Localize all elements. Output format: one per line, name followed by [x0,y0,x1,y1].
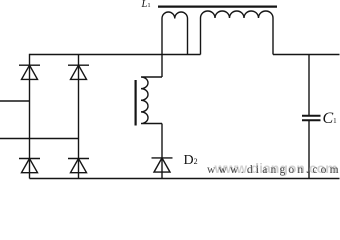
capacitor C1 [302,116,321,120]
diode: bridge top-left [19,65,40,79]
label C1 [323,110,337,128]
wire: AC input line 1 (to left branch midpoint) [0,100,30,102]
label L1 [142,0,151,10]
watermark gray bold layer [215,160,338,176]
diode D2 [152,158,173,172]
wire: coupled winding bottom to diode D2 and bottom rail [161,124,163,179]
wire: AC input line 2 (to right branch midpoint) [0,138,79,140]
watermark dark serif layer [207,164,340,176]
wire: bridge left branch vertical [29,54,31,179]
wire: bridge right branch vertical [78,55,80,179]
diode: bridge top-right [68,65,89,79]
inductor L1 core bar (top) [158,5,277,7]
coupled winding (vertical, middle) with leads [141,77,162,124]
inductor L1 winding A (2 turns) with left lead down to coupled winding [162,12,188,77]
wire: output rail from winding B to right edge [273,54,340,56]
wire: C1 branch vertical (bottom) [308,121,310,179]
wire: C1 branch vertical (top) [308,55,310,116]
diode: bridge bottom-right [68,159,89,173]
diode: bridge bottom-left [19,159,40,173]
wire: top DC rail from bridge to L1 winding B [30,54,201,56]
inductor L1 winding B (5 turns) [201,11,274,55]
wire: bottom return rail [30,178,340,180]
coupled winding core bar (vertical) [135,80,137,126]
label D2 [184,153,198,169]
